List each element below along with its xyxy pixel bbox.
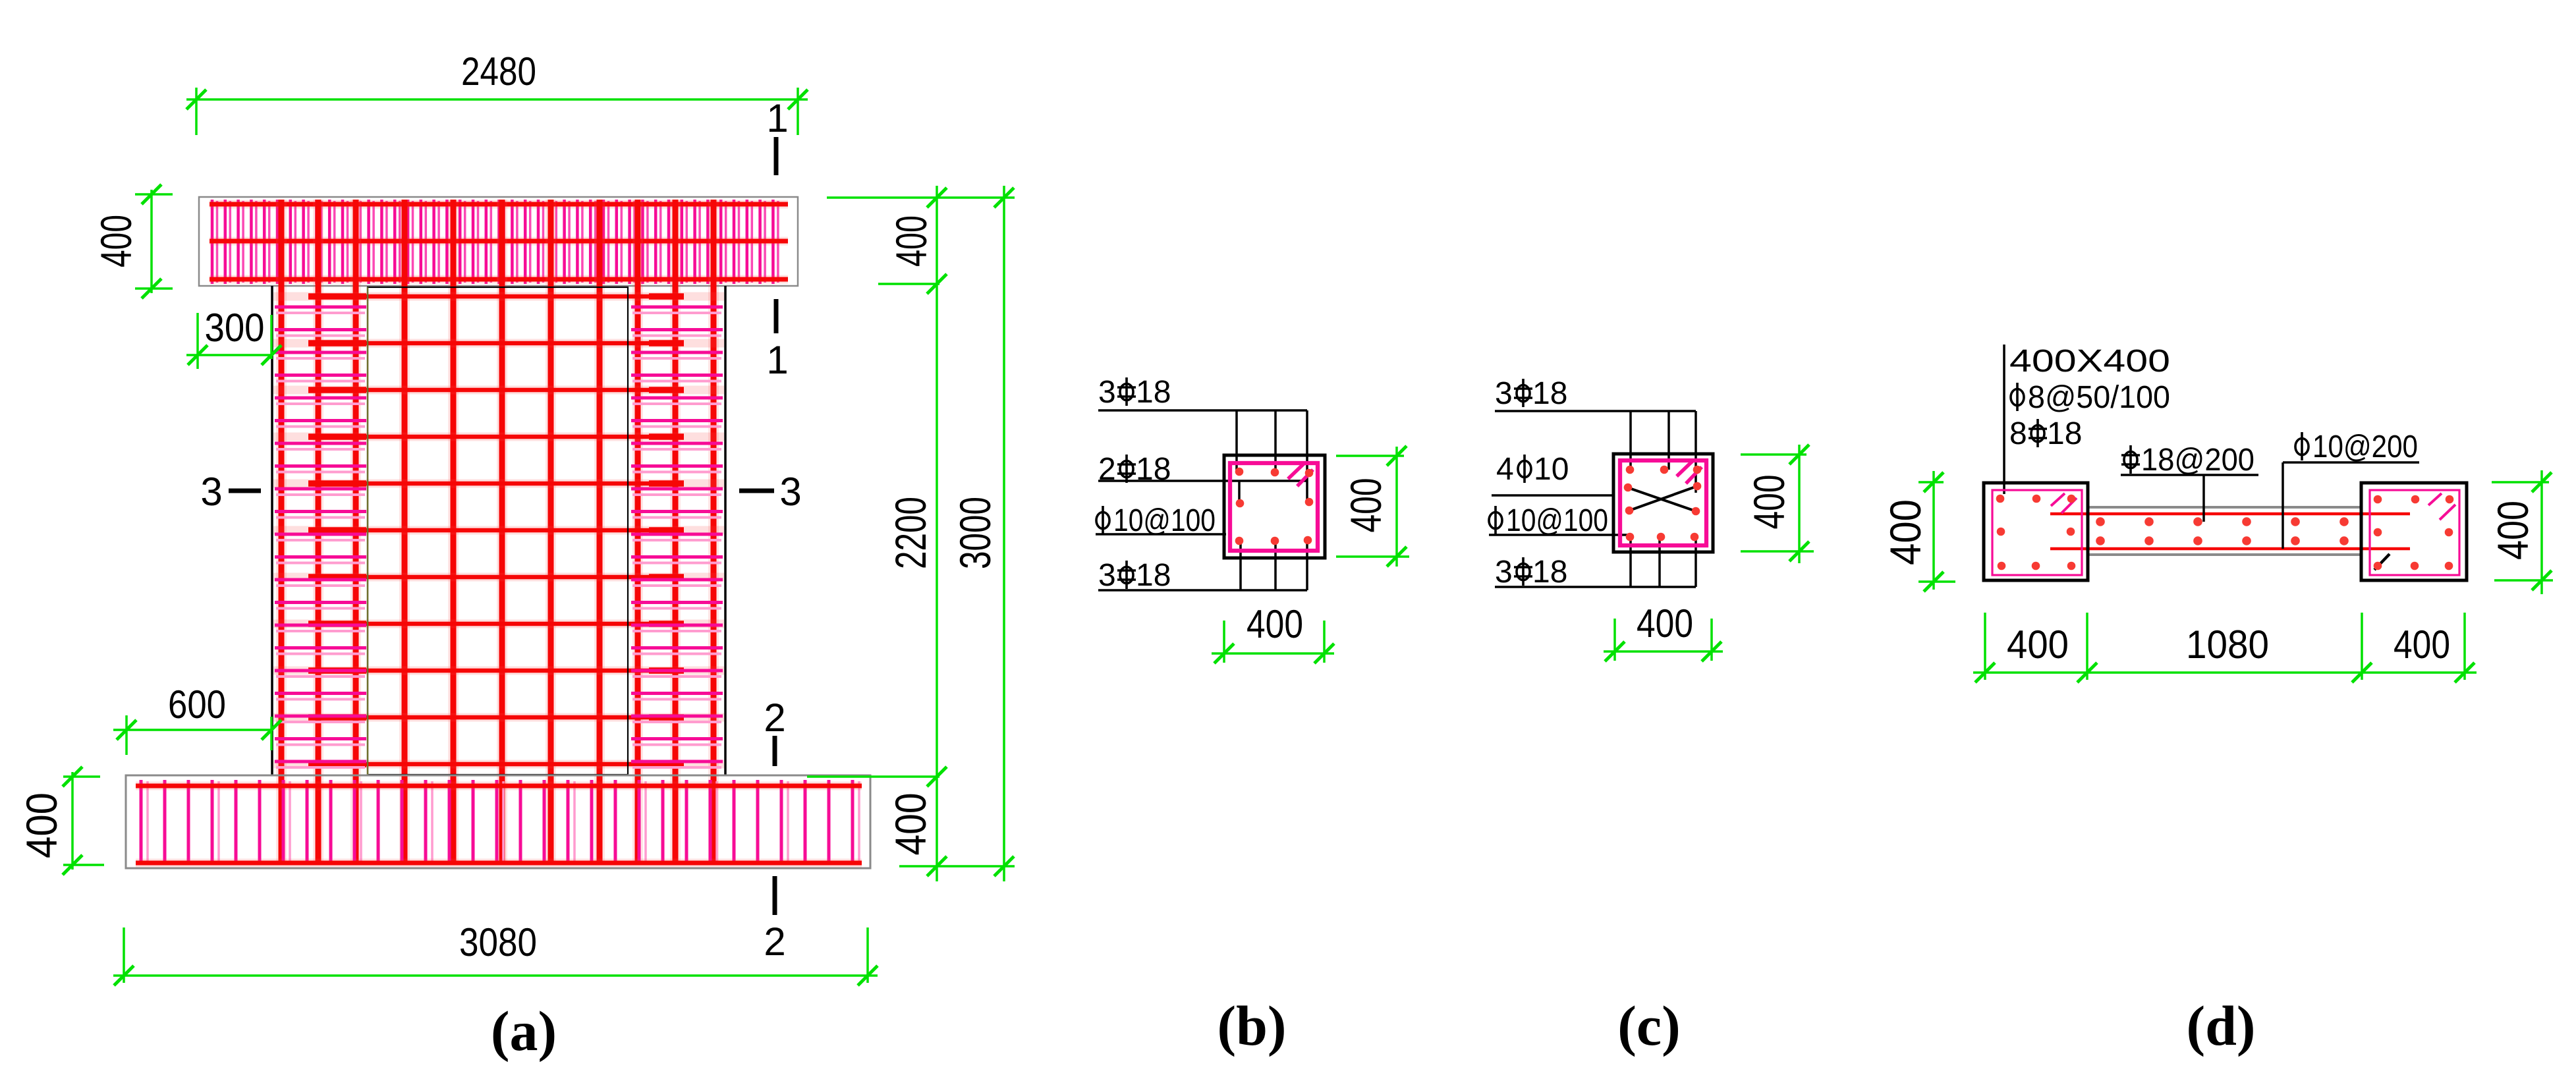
svg-text:1: 1: [766, 96, 788, 140]
label phi10@100 (b): [1096, 503, 1226, 538]
svg-text:400: 400: [1341, 478, 1390, 533]
svg-text:10@100: 10@100: [1113, 503, 1216, 538]
dimension 400 bottom (b): [1212, 602, 1334, 663]
dimension 400 beam height left: [92, 184, 173, 298]
svg-text:300: 300: [205, 306, 265, 350]
svg-text:18: 18: [1136, 375, 1171, 410]
svg-text:1080: 1080: [2186, 622, 2269, 667]
svg-text:2: 2: [764, 920, 785, 964]
section mark 1-1: [766, 96, 788, 382]
svg-text:1: 1: [766, 338, 788, 382]
wall vertical rebar: [281, 200, 714, 862]
inner panel outline: [368, 287, 628, 775]
foundation stirrups: [141, 780, 859, 864]
column b stirrup hook: [1288, 463, 1313, 486]
svg-text:18: 18: [2047, 416, 2082, 451]
svg-text:18: 18: [1532, 376, 1567, 411]
column d-left outer outline: [1984, 483, 2088, 580]
svg-text:(a): (a): [491, 999, 557, 1063]
svg-text:400: 400: [1881, 499, 1930, 565]
svg-text:400: 400: [2007, 622, 2069, 667]
svg-text:2: 2: [764, 696, 785, 740]
svg-text:10: 10: [1534, 452, 1569, 487]
svg-text:18: 18: [1136, 558, 1171, 593]
column b outer outline: [1224, 455, 1325, 558]
column label block 400X400 (d): [2004, 344, 2170, 494]
cross ties 4phi10 X (c): [1629, 486, 1697, 511]
svg-text:18@200: 18@200: [2141, 443, 2254, 478]
beam rebar dots (d): [2096, 517, 2349, 545]
label phi18@200 (d): [2121, 443, 2258, 522]
label 4phi10 (c): [1492, 452, 1613, 495]
svg-text:3: 3: [200, 470, 222, 514]
label 3phi18 top (c): [1495, 376, 1696, 493]
dimension 400 right (c): [1741, 445, 1814, 563]
svg-text:400: 400: [1745, 475, 1793, 530]
left boundary ties: [275, 307, 366, 767]
svg-text:8@50/100: 8@50/100: [2028, 380, 2170, 415]
section mark 3-3: [200, 470, 801, 514]
section mark 2-2: [764, 696, 785, 964]
column d-left stirrup hook: [2051, 493, 2077, 513]
label 3phi18 bottom (c): [1495, 537, 1696, 590]
column c stirrup hook: [1677, 460, 1702, 484]
right dimension chain 400/2200/3000/400: [807, 186, 1015, 881]
column c outer outline: [1613, 454, 1713, 552]
svg-text:3: 3: [1495, 376, 1513, 411]
dimension 300: [186, 306, 281, 369]
svg-text:400X400: 400X400: [2009, 344, 2170, 379]
svg-text:3: 3: [1098, 375, 1116, 410]
column d-right stirrup hook: [2428, 493, 2455, 520]
svg-text:(b): (b): [1217, 994, 1286, 1057]
top beam longitudinal bars: [210, 204, 788, 279]
top beam stirrups: [212, 200, 778, 284]
top beam outline: [199, 197, 798, 286]
dimension 3080: [113, 920, 878, 985]
label 3phi18 bottom (b): [1098, 540, 1307, 593]
dimension 400 right (b): [1336, 446, 1409, 567]
wall web horizontal bars: [273, 296, 724, 764]
svg-text:3080: 3080: [459, 920, 537, 964]
svg-text:3: 3: [779, 470, 801, 514]
svg-text:400: 400: [886, 793, 935, 856]
svg-text:400: 400: [92, 215, 140, 267]
beam longitudinal red bars (d): [2050, 514, 2410, 549]
label 3phi18 top (b): [1098, 375, 1307, 502]
column d-right outer outline: [2361, 483, 2467, 580]
label 2phi18 (b): [1098, 452, 1307, 502]
svg-text:18: 18: [1532, 555, 1567, 590]
dimension 400 left (d): [1881, 471, 1955, 592]
svg-text:3: 3: [1495, 555, 1513, 590]
dimension 600: [113, 682, 281, 755]
svg-text:(c): (c): [1617, 994, 1680, 1057]
svg-text:400: 400: [2488, 501, 2537, 560]
dimension 400 bottom (c): [1604, 601, 1723, 661]
column d-right stirrup: [2370, 490, 2459, 575]
svg-text:10@200: 10@200: [2312, 429, 2418, 464]
label phi10@200 (d): [2283, 429, 2419, 549]
svg-text:10@100: 10@100: [1506, 503, 1608, 538]
column c rebar dots: [1624, 466, 1702, 541]
svg-text:400: 400: [1246, 602, 1303, 646]
dimension chain 400/1080/400 bottom (d): [1973, 613, 2477, 682]
svg-text:400: 400: [2394, 622, 2450, 667]
right boundary ties: [631, 307, 723, 767]
beam outline (d): [2088, 507, 2361, 555]
column c stirrup: [1620, 460, 1706, 545]
svg-text:8: 8: [2009, 416, 2027, 451]
dimension 2480 top: [186, 49, 808, 135]
dimension 400 foundation left: [17, 767, 104, 875]
column d-left stirrup: [1992, 490, 2082, 575]
svg-text:2480: 2480: [461, 49, 536, 94]
foundation longitudinal bars: [136, 786, 862, 863]
wall right edge: [724, 286, 727, 775]
svg-text:(d): (d): [2186, 994, 2255, 1057]
label (d): [2186, 994, 2255, 1057]
wall left edge: [271, 286, 273, 775]
column d-right tick mark: [2374, 554, 2390, 570]
foundation outline: [126, 775, 870, 868]
label (a): [491, 999, 557, 1063]
svg-text:4: 4: [1496, 452, 1514, 487]
svg-text:2200: 2200: [886, 497, 935, 569]
svg-text:400: 400: [887, 215, 936, 267]
column d-right rebar dots: [2374, 495, 2454, 570]
column b rebar dots: [1235, 468, 1314, 545]
label (c): [1617, 994, 1680, 1057]
svg-text:3000: 3000: [951, 497, 999, 569]
svg-text:3: 3: [1098, 558, 1116, 593]
svg-text:400: 400: [1637, 601, 1693, 646]
column d-left rebar dots: [1996, 495, 2076, 570]
dimension 400 right (d): [2488, 470, 2553, 594]
column b stirrup: [1230, 463, 1318, 551]
label (b): [1217, 994, 1286, 1057]
svg-text:400: 400: [17, 792, 66, 858]
label phi10@100 (c): [1489, 503, 1629, 538]
svg-text:600: 600: [168, 682, 226, 727]
